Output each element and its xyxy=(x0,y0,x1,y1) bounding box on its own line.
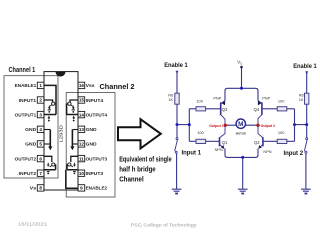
svg-text:9: 9 xyxy=(80,186,83,191)
wire enable1 right vertical xyxy=(306,72,308,93)
switch Input 2 xyxy=(306,125,308,138)
svg-text:Enable 1: Enable 1 xyxy=(293,63,317,70)
IC notch xyxy=(56,72,66,77)
svg-text:Input 1: Input 1 xyxy=(182,149,202,156)
svg-text:1K: 1K xyxy=(168,97,173,102)
svg-text:PNP: PNP xyxy=(213,96,221,101)
svg-text:Q1: Q1 xyxy=(222,140,228,145)
svg-text:M: M xyxy=(238,121,243,128)
node dot bottom rail xyxy=(241,156,244,159)
svg-text:Output 2: Output 2 xyxy=(261,124,276,128)
svg-text:Q4: Q4 xyxy=(254,107,260,112)
left pin boxes 1-8 xyxy=(37,82,44,191)
driver 3 glyph (pins 10-11) xyxy=(68,163,71,166)
wire bottom branch left xyxy=(189,140,196,142)
node dot right enable xyxy=(305,123,308,126)
svg-text:Output 1: Output 1 xyxy=(209,124,224,128)
svg-text:ENABLE1: ENABLE1 xyxy=(15,83,37,88)
node dot top rail xyxy=(240,87,243,90)
svg-text:ENABLE2: ENABLE2 xyxy=(86,186,108,191)
ground center xyxy=(238,189,248,191)
svg-text:Vss: Vss xyxy=(86,83,96,88)
svg-text:Input 2: Input 2 xyxy=(284,150,304,157)
wire pin4 GND internal xyxy=(44,129,50,131)
resistor 100 (Q3 base) xyxy=(196,107,206,111)
svg-text:2: 2 xyxy=(39,98,42,103)
svg-text:15: 15 xyxy=(79,98,85,103)
right pin boxes 16-9 xyxy=(78,82,85,191)
svg-text:NPN: NPN xyxy=(215,147,223,152)
node output1 red dot xyxy=(224,124,227,127)
svg-text:GND: GND xyxy=(86,127,97,132)
wire pin5 GND internal xyxy=(44,143,50,145)
svg-text:3: 3 xyxy=(39,112,42,117)
bottom rail xyxy=(225,155,258,157)
ground right xyxy=(301,189,311,191)
svg-text:1K: 1K xyxy=(299,97,304,102)
channel 1 box xyxy=(4,76,58,178)
svg-text:Q3: Q3 xyxy=(222,107,228,112)
left pin labels xyxy=(15,83,37,191)
Vs terminal dot xyxy=(240,66,243,69)
resistor 100 (Q4 base) xyxy=(277,107,287,111)
svg-text:GND: GND xyxy=(25,142,36,147)
svg-text:Channel 2: Channel 2 xyxy=(100,84,135,91)
wire to center ground xyxy=(242,157,244,188)
svg-text:PNP: PNP xyxy=(262,96,270,101)
wire pin13 GND internal xyxy=(72,129,78,131)
transistor Q4 PNP xyxy=(261,102,263,115)
wire top branch right xyxy=(262,108,277,110)
node dot left branch xyxy=(188,123,191,126)
svg-text:half h bridge: half h bridge xyxy=(119,164,156,173)
svg-text:GND: GND xyxy=(25,127,36,132)
svg-text:11: 11 xyxy=(79,156,84,161)
svg-text:GND: GND xyxy=(86,142,97,147)
wire below R6 right xyxy=(306,104,308,124)
svg-text:INPUT1: INPUT1 xyxy=(19,98,37,103)
motor wire xyxy=(225,124,258,126)
node dot left enable xyxy=(176,123,179,126)
svg-text:OUTPUT1: OUTPUT1 xyxy=(15,112,37,117)
enable1 right terminal arrow xyxy=(305,71,308,75)
right pin labels xyxy=(86,83,108,191)
ground left xyxy=(172,189,182,191)
gnd arrow right xyxy=(71,130,73,147)
wire top branch left xyxy=(189,108,197,110)
svg-text:Channel: Channel xyxy=(119,174,144,183)
wire pin3 OUTPUT1 internal xyxy=(44,114,56,116)
branch vertical right xyxy=(294,109,296,142)
pin numbers right xyxy=(79,83,85,191)
motor M1 xyxy=(236,119,245,128)
svg-text:INPUT4: INPUT4 xyxy=(86,98,104,103)
driver 1 lower transistor mark xyxy=(48,116,50,118)
wire pin2 INPUT1 internal xyxy=(44,100,53,102)
pin numbers left xyxy=(39,83,42,191)
svg-text:Channel 1: Channel 1 xyxy=(9,67,36,74)
svg-text:INPUT3: INPUT3 xyxy=(86,171,104,176)
svg-text:1: 1 xyxy=(39,83,42,88)
svg-text:5: 5 xyxy=(39,142,42,147)
resistor R6 right xyxy=(305,93,309,104)
svg-text:INPUT2: INPUT2 xyxy=(19,171,37,176)
svg-text:OUTPUT2: OUTPUT2 xyxy=(15,156,37,161)
svg-text:16: 16 xyxy=(79,83,85,88)
svg-text:100: 100 xyxy=(197,130,204,135)
wire pin15 INPUT4 internal xyxy=(70,100,78,102)
svg-text:14: 14 xyxy=(79,112,85,117)
resistor 100 (Q1 base) xyxy=(196,139,206,143)
svg-text:NPN: NPN xyxy=(263,149,271,154)
node dot right branch xyxy=(293,123,296,126)
svg-text:100: 100 xyxy=(278,130,285,135)
transistor Q3 PNP xyxy=(220,102,222,115)
svg-text:6: 6 xyxy=(39,156,42,161)
block arrow xyxy=(118,119,161,148)
svg-text:16/11/2021: 16/11/2021 xyxy=(18,222,48,227)
wire bottom branch right xyxy=(263,140,277,142)
transistor Q2 NPN xyxy=(262,137,264,146)
svg-text:Equivalent of single: Equivalent of single xyxy=(119,154,172,163)
driver 4 glyph (pins 15-14) xyxy=(68,102,71,105)
wire pin11 OUTPUT3 internal xyxy=(71,156,78,162)
svg-text:10: 10 xyxy=(79,171,85,176)
wire pin10 INPUT3 internal xyxy=(67,165,78,170)
svg-text:OUTPUT4: OUTPUT4 xyxy=(86,112,108,117)
svg-text:13: 13 xyxy=(79,127,85,132)
svg-text:100: 100 xyxy=(278,98,285,103)
resistor R6 left xyxy=(175,93,179,104)
svg-text:MOTOR: MOTOR xyxy=(236,131,247,135)
driver 3 ground dot xyxy=(73,171,76,173)
switch Input 1 xyxy=(176,125,178,138)
svg-text:PSG College of Technology: PSG College of Technology xyxy=(131,222,198,227)
top rail xyxy=(225,88,258,100)
wire pin9 ENABLE2 internal xyxy=(66,170,78,189)
wire pin7 INPUT2 internal xyxy=(44,165,56,170)
wire to branch node xyxy=(177,124,189,126)
driver 2 ground dot xyxy=(47,171,50,173)
svg-text:Enable 1: Enable 1 xyxy=(164,62,188,69)
svg-text:Q2: Q2 xyxy=(254,140,260,145)
wire pin12 GND internal xyxy=(72,143,78,145)
resistor 100 (Q2 base) xyxy=(277,139,287,143)
svg-text:L293D: L293D xyxy=(58,124,63,142)
driver 1 glyph (pins 2-3) xyxy=(52,102,55,105)
svg-text:8: 8 xyxy=(39,186,42,191)
svg-text:7: 7 xyxy=(39,171,42,176)
svg-text:Vs: Vs xyxy=(30,186,37,191)
driver 4 lower transistor mark xyxy=(73,116,75,118)
wire Vs vertical xyxy=(241,67,243,88)
svg-text:OUTPUT3: OUTPUT3 xyxy=(86,156,108,161)
branch vertical left xyxy=(188,109,190,142)
node output2 red dot xyxy=(256,124,259,127)
driver 2 glyph (pins 7-6) xyxy=(52,163,55,166)
gnd arrow left xyxy=(49,130,51,147)
transistor Q1 NPN xyxy=(219,137,221,146)
IC body U1 L293D xyxy=(44,72,78,190)
svg-text:12: 12 xyxy=(79,142,85,147)
wire pin6 OUTPUT2 internal xyxy=(44,156,52,162)
svg-text:4: 4 xyxy=(39,127,42,132)
enable1 left terminal arrow xyxy=(176,71,179,75)
wire branch to enable right xyxy=(295,124,307,126)
wire enable1 left vertical xyxy=(176,72,178,94)
svg-text:100: 100 xyxy=(196,98,203,103)
wire below R6 xyxy=(176,104,178,124)
wire pin1 ENABLE1 internal xyxy=(44,85,56,114)
channel 2 box xyxy=(66,93,115,198)
wire pin14 OUTPUT4 internal xyxy=(67,104,78,115)
